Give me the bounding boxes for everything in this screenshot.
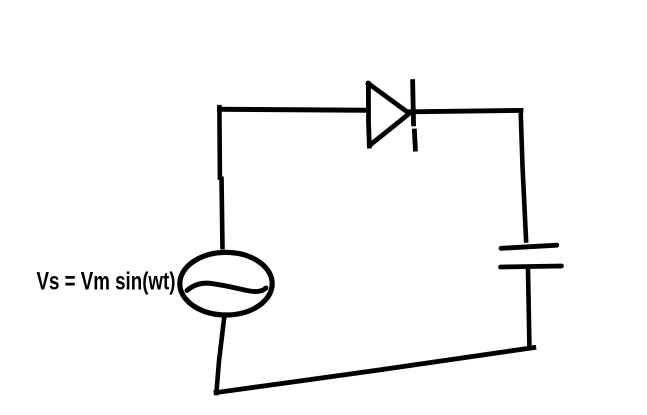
wire left vertical lower segment (slight jog) bbox=[222, 177, 223, 250]
diode cathode bar lower part bbox=[414, 129, 415, 152]
wire top horizontal from left corner to diode anode bbox=[217, 109, 368, 110]
diode D (triangle anode) bbox=[368, 84, 409, 147]
diode cathode bar upper part bbox=[413, 79, 414, 126]
wire below capacitor bbox=[528, 269, 529, 346]
voltage source V1 (ellipse) bbox=[180, 252, 272, 315]
wire left vertical upper segment bbox=[217, 107, 222, 177]
wire right vertical down to capacitor bbox=[521, 110, 527, 243]
capacitor C bottom plate bbox=[501, 266, 562, 267]
wire from diode cathode to top-right corner bbox=[410, 110, 521, 111]
capacitor C top plate bbox=[501, 245, 557, 248]
sine squiggle inside source bbox=[187, 283, 266, 291]
wire bottom slanted return bbox=[216, 348, 534, 393]
wire from source bottom to bottom-left corner bbox=[216, 317, 224, 396]
svg-text:Vs = Vm sin(wt): Vs = Vm sin(wt) bbox=[37, 267, 176, 295]
